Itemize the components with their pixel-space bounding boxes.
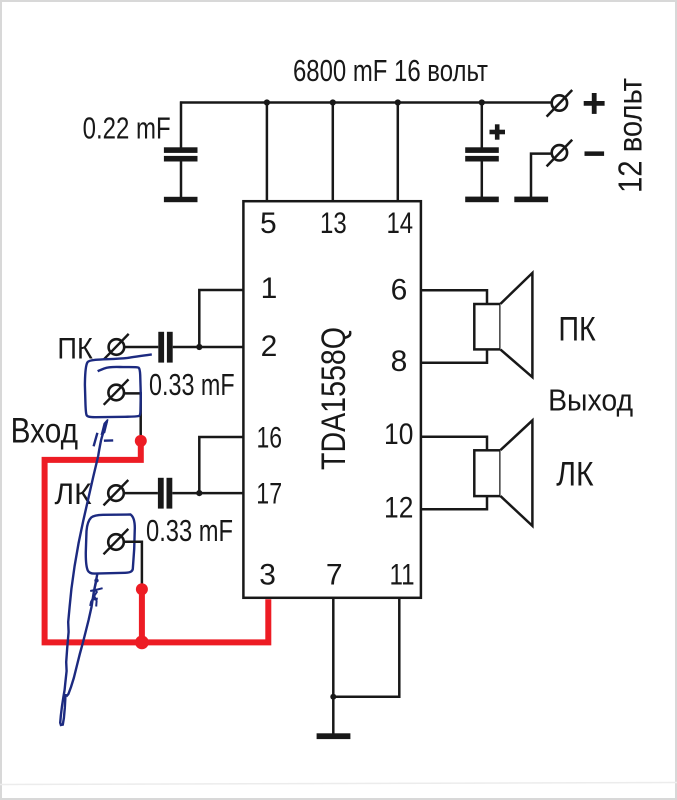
wire X4 to red node [124,542,142,584]
ground bar at minus terminal [514,197,548,203]
terminal + [552,95,567,110]
wire pin 10 to speaker [421,437,487,451]
op-amp U1 TDA1558Q body [243,201,421,598]
wire pin 8 to speaker [421,350,487,363]
speaker ПК cone [501,273,533,377]
node rail-pin13 [330,99,336,105]
capacitor C4 0.33 mF [158,478,164,509]
speaker ПК body [474,304,500,349]
speaker ЛК body [474,450,500,496]
blue box around X2 [85,354,152,417]
svg-text:2: 2 [261,330,278,363]
wire C1 to rail [180,101,183,148]
node pin17 junction [196,490,202,496]
wire X3 to C4 [124,492,158,495]
wire rail to pin 5 [266,103,269,203]
connector X1 [109,339,125,355]
wire +12V rail [180,101,551,104]
svg-text:10: 10 [384,418,413,451]
svg-text:ПК: ПК [558,311,596,349]
svg-text:14: 14 [387,207,414,240]
speaker ЛК cone [501,420,533,526]
wire pin 12 to speaker [421,496,487,509]
wire rail to pin 13 [332,103,335,203]
blue arrow scribble [102,420,108,434]
wire C2 to rail [481,103,484,149]
svg-text:0.22 mF: 0.22 mF [83,112,171,146]
wire C2 to ground [481,162,484,198]
wire rail to pin 14 [397,103,400,203]
svg-text:ЛК: ЛК [556,456,594,494]
red node upper [135,435,147,447]
svg-text:1: 1 [261,272,278,305]
svg-text:Вход: Вход [11,412,78,451]
svg-text:8: 8 [391,345,408,378]
node pin7-pin11 [330,694,336,700]
svg-text:13: 13 [320,207,347,240]
svg-text:11: 11 [389,558,414,591]
svg-text:3: 3 [259,558,276,591]
connector X3 [108,485,124,501]
connector X4 [108,534,124,550]
blue curve long [60,456,98,725]
label - [585,151,605,156]
wire pin 1 loop [199,290,243,347]
svg-text:12 вольт: 12 вольт [612,78,649,193]
wire C3 to pin 2 [173,346,244,349]
label + [584,93,605,114]
ground bar below C2 [465,197,499,203]
svg-text:16: 16 [256,422,282,455]
capacitor C3 0.33 mF [158,332,164,363]
wire C1 to ground [180,162,183,198]
polarity + of C2 [490,124,506,139]
svg-text:7: 7 [326,558,343,591]
node rail-C2 [479,99,485,105]
wire X2 to red node [124,393,141,435]
wire pin 11 to ground [333,598,399,697]
blue scribble figure [90,578,102,606]
svg-text:6800 mF 16 вольт: 6800 mF 16 вольт [293,54,488,88]
svg-text:17: 17 [256,478,282,511]
wire pin 7 to ground [332,598,335,735]
ground bar below C1 [164,197,198,202]
svg-text:6: 6 [391,273,408,306]
svg-text:5: 5 [260,207,277,240]
wire pin 6 to speaker [421,290,487,304]
connector X2 [108,385,124,401]
terminal - [552,145,567,160]
svg-text:TDA1558Q: TDA1558Q [315,327,353,470]
blue curve from box [66,574,97,697]
svg-text:12: 12 [384,492,413,525]
blue box around X4 [86,515,135,574]
red node junction bottom [135,636,149,650]
red wire from X4 [139,589,145,642]
node rail-pin14 [395,99,401,105]
ground bar bottom [317,733,351,739]
svg-text:Выход: Выход [548,383,633,418]
svg-text:0.33 mF: 0.33 mF [146,514,233,548]
wire X1 to C3 [124,346,158,349]
wire minus terminal to ground [531,154,551,198]
wire C4 to pin 17 [172,492,243,495]
red node X4 [136,583,148,595]
capacitor C2 6800 mF [465,147,499,153]
node pin2 junction [196,344,202,350]
svg-text:0.33 mF: 0.33 mF [149,368,235,402]
node rail-pin5 [264,99,270,105]
red wire main [45,441,269,642]
wire pin 16 loop [199,437,243,493]
capacitor C1 0.22 mF [164,147,198,153]
